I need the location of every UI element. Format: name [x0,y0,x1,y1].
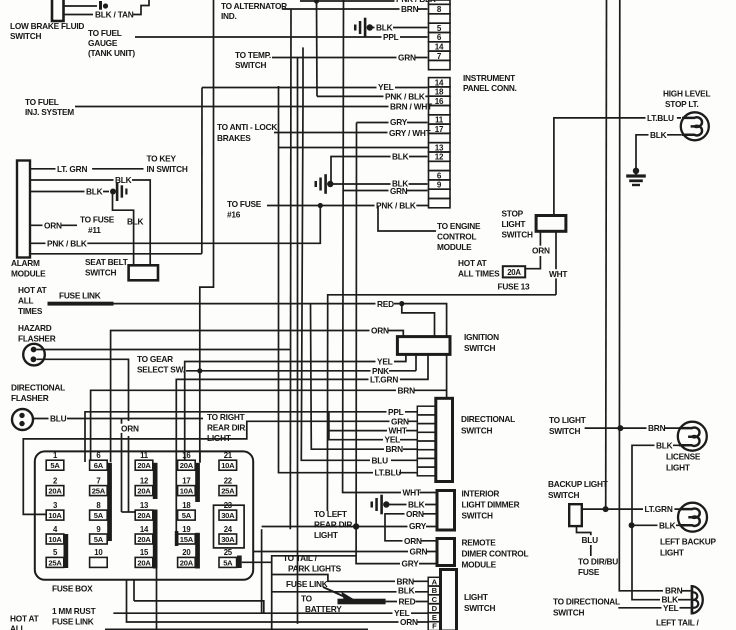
svg-text:#16: #16 [227,210,241,220]
svg-text:YEL: YEL [663,603,679,613]
wire temp switch / GRN to pin 7 [272,57,428,59]
svg-text:ORN: ORN [121,424,139,434]
svg-text:GRN: GRN [391,416,409,426]
svg-text:LT.GRN: LT.GRN [370,375,398,385]
svg-text:GRY / WHT: GRY / WHT [389,128,431,138]
svg-text:YEL: YEL [378,82,394,92]
label ORN remote [403,536,422,545]
svg-text:20A: 20A [48,487,62,496]
svg-text:GRY: GRY [390,117,408,127]
svg-text:PNK / BLK: PNK / BLK [385,92,425,102]
label BRN license [647,423,666,432]
svg-text:SWITCH: SWITCH [464,343,495,353]
svg-text:LICENSE: LICENSE [666,452,701,462]
fuse box bus bar fuse25 right [237,556,242,569]
wire YEL row to ignition switch [185,354,406,460]
svg-text:PNK / BLK: PNK / BLK [376,201,416,211]
wire YEL tail [618,607,662,609]
ground G2 below pin-12 riser [315,181,318,187]
svg-text:#11: #11 [88,225,101,235]
svg-text:7: 7 [96,476,100,485]
label GRY remote [400,559,419,568]
svg-text:12: 12 [435,153,444,162]
wire trunk V317 [316,1,319,96]
label ORN dimmer [405,509,424,518]
wire trunk V606 [605,0,608,509]
svg-text:HOT AT: HOT AT [18,285,47,295]
wire ORN stop light to fuse 13 [539,231,541,247]
light switch connector pins A-F [428,577,440,586]
svg-text:LEFT TAIL /: LEFT TAIL / [656,618,700,628]
seat belt switch [129,265,158,280]
svg-text:25A: 25A [48,558,62,567]
svg-text:BRN: BRN [386,444,404,454]
wire RED light switch [386,601,429,603]
svg-text:LIGHT: LIGHT [660,548,684,558]
wire bottom edge row [105,628,368,630]
svg-text:LT.BLU: LT.BLU [375,468,402,478]
svg-text:FUSE 13: FUSE 13 [498,282,531,292]
wire LT.GRN from alarm [30,168,144,170]
svg-text:TO ANTI - LOCK: TO ANTI - LOCK [217,122,277,132]
directional switch [436,398,453,481]
label LT.GRN ignition [369,375,400,384]
wire GRN remote [253,551,437,553]
svg-text:MODULE: MODULE [437,242,472,252]
wire BRN row to directional switch top [91,390,447,460]
license lamp DS2 [678,422,707,451]
svg-text:DIRECTIONAL: DIRECTIONAL [461,414,515,424]
label WHT directional [387,426,406,435]
svg-text:E: E [432,613,437,622]
label WHT stop light [548,269,567,278]
ground G4 alarm [110,189,116,195]
label BLK pin6 [391,179,409,188]
wire GRN row to directional connector from fuse 3 [23,421,417,514]
svg-text:ALARM: ALARM [11,258,40,268]
label GRY dimmer [408,521,427,530]
svg-text:BLK: BLK [127,217,144,227]
svg-text:B: B [432,586,438,595]
svg-text:FLASHER: FLASHER [11,393,49,403]
svg-text:LIGHT: LIGHT [464,592,488,602]
wire BLK/TAN jog up [133,0,149,15]
node junction on PNK/BLK top row [314,0,319,4]
svg-text:TO KEY: TO KEY [147,154,177,164]
svg-text:BRAKES: BRAKES [217,133,251,143]
svg-text:PPL: PPL [388,407,404,417]
svg-text:ORN: ORN [400,617,418,627]
svg-text:ORN: ORN [371,326,389,336]
svg-text:MODULE: MODULE [462,560,497,570]
svg-text:FUSE LINK: FUSE LINK [52,617,94,627]
svg-text:SEAT BELT: SEAT BELT [85,257,128,267]
label PNK/BLK alarm [46,239,88,248]
label GRY pin11 [389,117,408,126]
svg-text:30A: 30A [221,511,235,520]
svg-text:HOT AT: HOT AT [458,258,487,268]
svg-text:BRN: BRN [398,385,416,395]
fuse box bus bar fuse19 left [175,531,179,546]
svg-text:TO FUEL: TO FUEL [25,97,59,107]
svg-text:MODULE: MODULE [11,269,46,279]
svg-text:LT. GRN: LT. GRN [57,164,87,174]
svg-text:14: 14 [435,78,444,87]
label ORN fuse [120,424,139,433]
svg-text:BRN: BRN [401,4,419,14]
svg-text:F: F [432,622,437,630]
label PNK/BLK top cut [395,0,437,3]
wire BLU backup [577,526,591,536]
svg-text:BLK: BLK [398,586,415,596]
svg-text:ORN: ORN [532,246,550,256]
wire from hazard flasher top contact [37,349,292,351]
svg-text:10A: 10A [48,535,62,544]
svg-text:BLK: BLK [392,152,409,162]
inline connector symbol on stub [99,1,102,11]
svg-text:ORN: ORN [44,220,62,230]
label GRN pin7 [397,53,416,62]
remote dimmer control module [437,539,455,566]
svg-text:SWITCH: SWITCH [85,268,116,278]
svg-text:20: 20 [182,548,191,557]
svg-text:HAZARD: HAZARD [18,323,52,333]
svg-text:13: 13 [435,143,444,152]
svg-text:DIMER CONTROL: DIMER CONTROL [462,549,529,559]
wire BLK tail to lamp [678,599,691,601]
svg-text:11: 11 [435,115,444,124]
wire alarm module bottom row [30,253,202,255]
wire BLK light switch [272,591,428,593]
svg-text:20A: 20A [137,511,151,520]
label YEL light switch [393,608,412,617]
svg-text:TO RIGHT: TO RIGHT [207,412,245,422]
svg-text:GRY: GRY [402,559,420,569]
svg-text:LIGHT: LIGHT [666,463,690,473]
svg-text:TO DIR/BU: TO DIR/BU [578,557,618,567]
svg-text:PANEL CONN.: PANEL CONN. [463,83,517,93]
wire YEL to pin 14 [202,87,428,89]
wire stub from low brake fluid switch top [64,5,98,7]
ignition switch U1 [397,337,450,355]
svg-text:INJ. SYSTEM: INJ. SYSTEM [25,107,74,117]
svg-text:BRN: BRN [648,423,666,433]
svg-text:20A: 20A [137,461,151,470]
wire BLK backup [631,524,679,526]
svg-text:BACKUP LIGHT: BACKUP LIGHT [548,479,608,489]
svg-text:SWITCH: SWITCH [553,608,584,618]
svg-text:TO LIGHT: TO LIGHT [549,415,586,425]
wire GRY drop from dimmer row [261,529,263,613]
svg-text:C: C [432,595,438,604]
svg-text:BLK: BLK [656,440,673,450]
label BLU backup [580,535,599,544]
svg-text:STOP LT.: STOP LT. [665,99,699,109]
fuse 23-24 outer box [214,505,245,548]
wire to pin 13 [279,147,429,149]
svg-text:16: 16 [182,451,191,460]
svg-text:BLU: BLU [372,455,389,465]
wire PNK / gear select row [186,370,416,372]
wire fuse25 to tail lights [242,556,356,563]
svg-text:REAR DIR.: REAR DIR. [207,423,247,433]
label PNK/BLK pin18 [384,92,426,101]
svg-text:ALL TIMES: ALL TIMES [458,269,500,279]
label ORN light switch [399,617,418,626]
node junction TO FUSE 16 [318,203,323,208]
svg-text:LIGHT: LIGHT [314,530,338,540]
svg-text:25: 25 [224,548,233,557]
fuse box bus bar col4 lower [195,533,200,569]
label BLK/TAN [94,10,136,19]
wire fuel gauge / PPL to pin 6 [135,36,428,38]
svg-text:18: 18 [182,501,191,510]
svg-text:ALL: ALL [18,296,34,306]
svg-text:TO: TO [301,594,313,604]
svg-text:DIRECTIONAL: DIRECTIONAL [11,383,65,393]
label ORN stop light [531,246,550,255]
label BLK dimmer [407,500,426,509]
svg-text:10A: 10A [48,511,62,520]
wire fuse box exit V134 [133,580,135,601]
svg-text:BLU: BLU [582,535,599,545]
svg-text:15A: 15A [180,535,194,544]
fuse box bus bar col3 lower [153,510,158,569]
svg-text:20A: 20A [137,535,151,544]
fuse box bus bar col3 upper [153,463,158,499]
svg-text:CONTROL: CONTROL [437,232,476,242]
wire BLU into directional connector [391,459,417,461]
wire second col3 feed [121,419,123,513]
wire trunk V356 to remote GRY [356,123,401,564]
backup light switch [569,504,582,526]
svg-text:YEL: YEL [385,435,401,445]
interior light dimmer switch [437,491,455,531]
label YEL tail [662,603,681,612]
svg-text:FUSE: FUSE [578,567,600,577]
svg-text:TO TAIL /: TO TAIL / [283,553,318,563]
ground G3 dimmer [371,502,374,508]
svg-text:14: 14 [435,42,444,51]
svg-text:10: 10 [94,548,103,557]
label GRN remote [408,547,427,556]
wire trunk V278 [279,86,377,473]
wire BLK dimmer [386,504,437,506]
label LT.BLU [646,113,677,122]
svg-text:GRN: GRN [390,187,408,196]
svg-text:15: 15 [140,548,149,557]
node junction gear select [197,368,202,373]
wire LT.GRN backup [582,508,679,510]
wire PNK/BLK top cut row [300,0,428,2]
svg-text:FUSE BOX: FUSE BOX [52,584,93,594]
svg-text:SWITCH: SWITCH [502,230,533,240]
wire branch to engine control module [378,206,436,232]
svg-text:BLK: BLK [376,23,393,33]
wire BLK high level to ground [636,135,682,168]
wire anti-lock / GRY-WHT to pin 17 [274,132,428,134]
label YEL pin14 [377,82,396,91]
svg-text:TO DIRECTIONAL: TO DIRECTIONAL [553,597,620,607]
svg-text:(TANK UNIT): (TANK UNIT) [88,48,135,58]
svg-text:D: D [432,604,438,613]
svg-text:SWITCH: SWITCH [10,31,41,41]
label YEL directional [383,435,402,444]
svg-text:TO FUSE: TO FUSE [80,215,115,225]
svg-text:24: 24 [224,525,233,534]
wire from fuse link to ignition RED [114,303,402,305]
label YEL ignition [376,357,395,366]
wire trunk V213 with jog to gear select and fuse box [200,0,214,462]
svg-text:20A: 20A [180,558,194,567]
svg-text:PPL: PPL [383,32,399,42]
directional switch connector pins [417,406,436,415]
wire fuse box exit V156 [156,569,158,630]
svg-text:INSTRUMENT: INSTRUMENT [463,73,515,83]
svg-text:GRN: GRN [398,53,416,63]
svg-text:TO ALTERNATOR: TO ALTERNATOR [221,1,287,11]
svg-text:13: 13 [140,501,149,510]
svg-text:SWITCH: SWITCH [549,426,580,436]
svg-text:ORN: ORN [406,509,424,519]
wire trunk V329 to directional YEL [329,412,384,440]
label WHT dimmer [401,488,420,497]
svg-text:LOW BRAKE FLUID: LOW BRAKE FLUID [10,21,84,31]
node junction license BRN [617,425,623,431]
label ORN alarm [43,221,62,230]
wire BRN light switch with jog [272,575,429,582]
wire fuse25 branch down [271,562,273,630]
svg-text:GAUGE: GAUGE [88,38,118,48]
svg-text:1 MM RUST: 1 MM RUST [52,606,96,616]
svg-text:REAR DIR.: REAR DIR. [314,520,354,530]
wire bottom bus ORN row [127,580,429,622]
label BLK light switch [397,586,416,595]
wire bottom bus YEL row [113,612,428,614]
wire BLK1 from alarm [30,180,150,265]
low brake fluid switch [52,0,64,21]
ground G1 on BLK pin 5 row [354,25,357,31]
svg-text:SWITCH: SWITCH [548,490,579,500]
wire RED second feed to ignition switch [402,304,435,337]
fuse box [35,451,253,579]
label BLK2 [85,187,104,196]
label BLK tail [660,595,679,604]
svg-text:RED: RED [399,597,416,607]
svg-text:SWITCH: SWITCH [462,511,493,521]
svg-text:TO ENGINE: TO ENGINE [437,221,481,231]
wire BLK to pin 6 [329,183,427,185]
hazard flasher [23,344,45,366]
wire WHT into directional connector [406,430,417,432]
wire ORN from alarm [30,224,77,226]
svg-text:21: 21 [224,451,233,460]
wire WHT directional branch [328,430,389,432]
svg-text:SWITCH: SWITCH [235,60,266,70]
node junction backup LT.GRN [603,506,609,512]
fuse 13 20A [503,266,525,277]
label RED light switch [397,597,416,606]
directional flasher [12,409,33,430]
label BLU flasher [49,414,68,423]
svg-text:INTERIOR: INTERIOR [462,489,500,499]
svg-text:5A: 5A [223,558,233,567]
wire from hazard flasher to col3 feed [37,359,129,421]
svg-text:LIGHT DIMMER: LIGHT DIMMER [462,500,520,510]
wire BLK down to seat belt switch [113,194,134,265]
wire trunk V303 to directional BLU [302,47,304,100]
svg-text:TO LEFT: TO LEFT [314,509,347,519]
label LT.BLU directional [373,468,404,477]
svg-text:PARK LIGHTS: PARK LIGHTS [288,564,342,574]
svg-text:PNK / BLK: PNK / BLK [47,239,87,249]
wire ORN row to ignition switch [111,331,404,463]
wire BLK license [632,445,680,599]
label PPL [382,32,401,41]
label BLK backup [658,521,677,530]
fuse link arrow [323,587,345,597]
wire GRN to pin 9 [343,190,428,192]
svg-text:30A: 30A [221,535,235,544]
label BLU directional [370,456,389,465]
light switch [441,570,457,630]
svg-text:TO TEMP.: TO TEMP. [235,50,271,60]
wire PPL row to directional connector [85,412,417,462]
label BRN tail [664,586,683,595]
wire RED to ignition switch [402,304,447,337]
wire BLU from directional flasher [33,418,203,420]
svg-text:IN SWITCH: IN SWITCH [147,164,188,174]
svg-text:SWITCH: SWITCH [461,426,492,436]
wire ORN dimmer bracket [385,514,437,541]
wire trunk V320 PNK/BLK riser to alarm row [30,206,320,244]
svg-text:LT.GRN: LT.GRN [645,504,673,514]
svg-text:11: 11 [140,451,149,460]
svg-text:6A: 6A [94,461,104,470]
wire stoplight WHT return to left rear vertical [327,295,556,511]
label BRN directional [384,444,403,453]
wire YEL tail to lamp [680,607,691,609]
fuse box bus bar col2 [107,463,112,541]
alarm module [17,161,30,258]
wire BRN license [585,427,679,429]
svg-text:10A: 10A [221,461,235,470]
svg-text:5A: 5A [94,535,104,544]
svg-text:12: 12 [140,476,149,485]
label BRN/WHT [389,102,431,111]
wire GRY remote into module [419,563,437,565]
wire BLK2 from alarm to ground [30,191,109,193]
svg-text:BRN / WHT: BRN / WHT [390,102,432,112]
svg-text:FUSE LINK: FUSE LINK [59,291,101,301]
left tail lamp DS4 half bulb [691,585,694,615]
svg-text:20A: 20A [137,487,151,496]
svg-text:TO FUEL: TO FUEL [88,28,122,38]
wire bridge at bottom [134,601,264,613]
wire WHT stop light down [555,231,557,294]
wire trunk V297 [297,58,299,624]
svg-text:ALL: ALL [10,624,26,630]
wire LT.BLU high level stop [554,118,681,216]
wire fuel injection / BRN-WHT to pin 16 [75,106,428,108]
label BLK pin12 [391,152,410,161]
svg-text:A: A [432,577,438,586]
svg-text:STOP: STOP [502,209,524,219]
svg-text:BLK: BLK [86,187,103,197]
wire trunk V201 from YEL pin row to alarm row [201,88,203,254]
label ORN ignition [370,326,389,335]
svg-text:25A: 25A [221,487,235,496]
